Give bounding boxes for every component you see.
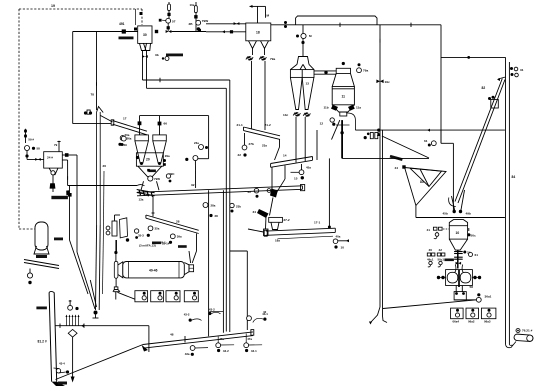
wire mixer drop — [72, 337, 74, 377]
wire funnel converge left — [90, 280, 96, 307]
mill flange lines — [128, 262, 130, 278]
wire funnel feed from conveyor28 — [196, 234, 198, 252]
wire silo18 legs — [252, 49, 254, 56]
instrument 79W top — [196, 20, 201, 25]
svg-text:50c: 50c — [471, 234, 476, 238]
instrument 28a mid — [199, 145, 204, 150]
stack tip — [97, 107, 104, 113]
wire mill feed horizontal — [455, 299, 477, 301]
wire vertical riser x72.7 — [72, 32, 74, 124]
conveyor 48 right cap — [251, 330, 254, 336]
svg-text:13a: 13a — [139, 198, 144, 202]
svg-text:43-1: 43-1 — [251, 349, 257, 353]
svg-text:23a: 23a — [262, 144, 267, 148]
exchanger rect B — [120, 218, 128, 238]
svg-text:22: 22 — [248, 190, 252, 194]
instrument 61 pair — [431, 141, 436, 146]
svg-text:17-1: 17-1 — [314, 221, 320, 225]
instrument below box24 hopper — [51, 171, 55, 175]
svg-text:12: 12 — [320, 122, 324, 126]
svg-text:50c1: 50c1 — [438, 258, 445, 262]
filter 11 inlet box — [336, 68, 350, 73]
bold chute piece — [390, 156, 402, 159]
wire header y217.5 — [416, 217, 505, 219]
wire into silo18 — [206, 31, 246, 33]
svg-text:2B: 2B — [189, 22, 194, 26]
wire corner box24 to header — [67, 160, 69, 186]
instrument cluster on duct — [301, 33, 306, 38]
silo 30 body — [138, 26, 152, 44]
vessel 20 hopper — [138, 166, 162, 177]
manifold drop — [148, 326, 150, 352]
wire header y130.1 — [355, 129, 505, 131]
wire dashed boundary top — [19, 8, 142, 10]
valve drops to cyclone hats — [139, 116, 141, 135]
valve 44 — [402, 165, 405, 168]
wire into silo18 upper — [206, 23, 246, 25]
wire main header y24.8 — [271, 24, 441, 26]
instrument pump 45 — [193, 156, 198, 161]
tank body — [35, 222, 48, 250]
svg-text:06a2: 06a2 — [468, 319, 475, 323]
mill feed box below — [454, 292, 466, 300]
separator funnel inner — [410, 168, 442, 186]
wire drop x329.4 to conveyor — [328, 158, 330, 228]
wire header y185.5 — [68, 185, 137, 187]
cyclone 13 body — [290, 70, 314, 78]
svg-text:23a: 23a — [194, 141, 199, 145]
svg-text:10: 10 — [456, 231, 460, 235]
svg-text:76.21 #: 76.21 # — [522, 329, 533, 333]
svg-text:84: 84 — [512, 175, 516, 179]
valve 35-1 — [169, 241, 172, 244]
box 24 — [44, 152, 63, 168]
wire transfer line y88.3 — [147, 87, 227, 89]
roller right — [460, 272, 471, 283]
screw under vessel 20 — [137, 190, 155, 193]
vent stack x196 — [195, 2, 197, 32]
mill side connectors — [437, 276, 440, 279]
left edge instruments — [134, 229, 138, 233]
wire drop x69.5 — [69, 186, 71, 240]
conveyor 13a right end box — [301, 185, 305, 191]
wire drop x77 — [76, 155, 78, 252]
svg-text:11: 11 — [342, 95, 346, 99]
valve 45b 49b dots — [453, 210, 456, 213]
svg-text:34: 34 — [253, 210, 257, 214]
wire bypass loop y16 — [296, 16, 377, 25]
wire duct hook arrow — [371, 307, 380, 322]
instrument 45a below 14 — [299, 170, 304, 175]
cyclone A cone — [135, 141, 149, 163]
conveyor 13a belt — [137, 186, 302, 193]
conveyor 17-1 left end — [264, 230, 267, 236]
wire cyclone tip drops — [295, 117, 297, 163]
wire mill discharge — [455, 286, 457, 292]
wire capsule feed — [115, 240, 117, 261]
silo 18 hoppers — [249, 41, 257, 49]
svg-text:43a: 43a — [185, 352, 190, 356]
svg-text:23b: 23b — [236, 205, 241, 209]
svg-text:47a: 47a — [247, 337, 252, 341]
svg-text:15: 15 — [294, 177, 298, 181]
instrument 79W vessel20 — [148, 176, 153, 181]
elevator head box — [491, 100, 499, 109]
tank label — [36, 255, 47, 258]
svg-text:31: 31 — [520, 68, 524, 72]
wire under48 drops — [184, 336, 186, 343]
svg-text:11b: 11b — [324, 106, 329, 110]
valve sq lower — [230, 30, 233, 33]
left vent stack — [25, 129, 27, 143]
wire pump branch to circle — [198, 158, 209, 160]
wire vertical riser x96.5 — [96, 32, 98, 111]
tank discharge conveyor — [24, 260, 59, 266]
instrument 39a — [170, 234, 175, 239]
svg-text:11a: 11a — [356, 106, 361, 110]
vessel 20 left fitting — [136, 156, 139, 159]
svg-text:18a: 18a — [275, 239, 280, 243]
instrument 27b — [242, 145, 247, 150]
cyclone B cone — [153, 141, 167, 163]
svg-text:43-2: 43-2 — [209, 307, 215, 311]
svg-text:79a: 79a — [363, 69, 368, 73]
svg-text:21-2: 21-2 — [265, 123, 271, 127]
instrument cluster below header — [370, 133, 373, 139]
instrument 43a left — [190, 346, 195, 351]
instrument left of 24 — [25, 146, 30, 151]
svg-text:32: 32 — [191, 183, 195, 187]
svg-text:13: 13 — [306, 82, 310, 86]
svg-text:17: 17 — [123, 117, 127, 121]
wire exchanger top — [114, 215, 116, 221]
wire long vertical x208.6 lower — [208, 190, 210, 336]
svg-text:10a: 10a — [190, 3, 195, 7]
svg-text:43-4: 43-4 — [59, 362, 65, 366]
filter 11 cone — [332, 105, 354, 112]
mill feed funnel — [189, 251, 191, 263]
valve black discharge — [50, 183, 56, 188]
wire corner drop x441 to valves — [440, 130, 442, 143]
wall foot label — [58, 382, 67, 385]
svg-text:28: 28 — [215, 214, 219, 218]
wire conveyor14 leg drop — [271, 167, 273, 190]
wire right pair hook — [506, 342, 517, 348]
valve cyclone tips — [295, 112, 299, 116]
wire stack continue — [96, 225, 97, 310]
silo 18 body — [246, 23, 271, 41]
funnel apex dot — [94, 311, 98, 315]
wire duct x380 — [379, 25, 381, 307]
mill inlet box right — [189, 265, 194, 272]
valve below — [25, 154, 28, 157]
conveyor 17-1 belt — [266, 228, 336, 231]
wire silo18 drop right — [264, 61, 266, 130]
roller left — [447, 272, 458, 283]
pump box 06a4 — [451, 308, 464, 319]
wire filter discharge bold — [341, 120, 343, 158]
wire corner drop x441 — [440, 25, 442, 144]
svg-text:40-46: 40-46 — [149, 269, 158, 273]
wire stack chute to conveyor 17 — [101, 116, 113, 123]
label 4WA.33b — [166, 54, 183, 57]
instrument 22 above feeder — [254, 188, 259, 193]
wire header y115.6 — [140, 115, 209, 117]
svg-text:06a3: 06a3 — [484, 319, 491, 323]
wire valve to pump box — [118, 292, 135, 299]
svg-text:18: 18 — [256, 31, 260, 35]
silo 10 cone — [449, 239, 467, 250]
rotary feeder capsule — [514, 334, 533, 342]
pump box 2 — [151, 291, 164, 302]
svg-text:491: 491 — [119, 22, 125, 26]
stack column — [96, 112, 98, 225]
pump box 3 — [166, 291, 180, 302]
label bold 1 — [36, 307, 47, 310]
wire right drop x509.4 — [508, 62, 510, 345]
wire third line — [103, 171, 106, 225]
separator funnel outer — [405, 168, 446, 206]
conveyor 14 belt — [271, 157, 313, 164]
wire valve drop — [115, 292, 117, 300]
wire drop x453.4 to silo10 — [452, 143, 454, 211]
svg-text:22: 22 — [238, 153, 242, 157]
mill center feed bold — [458, 270, 460, 287]
wire pump down to conveyor — [194, 161, 196, 189]
wire x317 drop — [316, 130, 318, 160]
wire dashed to tank — [19, 228, 35, 230]
wire chute below conveyor14 left — [284, 166, 286, 180]
wall cap — [49, 291, 54, 292]
conveyor 48 belt — [143, 332, 253, 345]
svg-text:79: 79 — [54, 143, 58, 147]
wire branch y251 — [230, 250, 248, 252]
wire silo18 drop left — [251, 61, 253, 129]
spray comb — [66, 317, 68, 326]
svg-text:61: 61 — [424, 139, 428, 143]
valve 69 dot — [118, 143, 121, 146]
instrument 12 rotary — [330, 118, 334, 122]
mill inlet capsule — [114, 261, 118, 278]
wire long vertical x208.6 upper — [208, 116, 210, 159]
instrument 36a1 — [476, 297, 481, 302]
valve 491 — [122, 29, 126, 33]
svg-text:79W: 79W — [202, 19, 208, 23]
wire header y123.6 to conveyor17 — [73, 123, 112, 125]
label 30/1000 — [51, 196, 68, 199]
label bold midleft — [152, 242, 161, 245]
wire duct drop x303 — [302, 25, 304, 57]
wire box24 discharge — [52, 175, 54, 192]
bold label right of tank — [54, 238, 63, 241]
mill right trunnion — [184, 263, 189, 275]
conveyor 21-1 belt — [244, 127, 281, 136]
svg-text:20: 20 — [146, 158, 150, 162]
cyclone B hat — [153, 135, 167, 141]
wire silo18 top vent — [257, 6, 259, 23]
instrument 35a — [148, 226, 153, 231]
cyclone A hat — [135, 135, 149, 141]
svg-text:27b: 27b — [249, 142, 254, 146]
cone tip valves — [140, 162, 143, 165]
svg-text:19c: 19c — [385, 80, 390, 84]
wire into box24 — [26, 151, 28, 160]
svg-text:66: 66 — [164, 122, 168, 126]
wire capsule drop — [115, 278, 117, 287]
svg-text:39a: 39a — [177, 235, 182, 239]
wire cyclone to filter pipe — [314, 70, 336, 72]
conveyor 28 belt — [146, 215, 199, 230]
wire chute diagonal — [275, 147, 280, 160]
svg-text:M: M — [309, 34, 312, 38]
silo10 right fitting 50c — [467, 233, 470, 236]
conveyor 17 belt — [113, 121, 147, 132]
instrument 23b on drop — [230, 203, 234, 207]
filter 11 shoulder — [332, 74, 354, 87]
svg-text:19: 19 — [51, 4, 55, 8]
svg-text:49b: 49b — [466, 212, 471, 216]
pump box 1 — [135, 291, 148, 302]
wire duct x382.5 lower — [382, 130, 384, 316]
valve at silo30 outlet right — [155, 30, 158, 33]
feeder pulley black — [270, 189, 278, 198]
valve diamond on upper — [234, 22, 240, 25]
svg-text:81.2 #: 81.2 # — [38, 340, 47, 344]
wire right drop x505.5 — [505, 57, 507, 344]
label 4WA.50 — [119, 37, 134, 40]
roller mill housing — [446, 270, 473, 286]
pump box 4 — [184, 291, 198, 302]
wire dashed boundary left — [18, 9, 20, 229]
cyclone 13 cones — [290, 77, 302, 109]
filter 11 band — [332, 88, 354, 90]
wire long drop x229.8 — [229, 80, 231, 332]
frame 43 box — [209, 311, 223, 313]
svg-text:3b: 3b — [155, 53, 159, 57]
svg-text:43-2: 43-2 — [184, 312, 190, 316]
conveyor 48 left pulley — [142, 345, 148, 352]
valve stub dashed corner — [140, 12, 143, 15]
wall conveyor lines — [49, 293, 52, 382]
wire exchanger drop — [116, 240, 118, 251]
wire silo30 discharge down — [142, 59, 144, 80]
wire silo30 legs — [142, 51, 144, 60]
filter 11 left leg — [332, 120, 340, 140]
arrow down — [71, 377, 75, 383]
wire top right branch y57.4 — [441, 56, 506, 58]
nozzle 34 — [257, 209, 269, 218]
svg-text:28: 28 — [176, 220, 180, 224]
svg-text:20a: 20a — [125, 133, 130, 137]
silo 10 body — [449, 226, 467, 239]
wire chute to box23 — [265, 216, 268, 229]
svg-text:37-2: 37-2 — [283, 218, 289, 222]
wire big diagonal — [56, 345, 144, 380]
wire arrow right — [338, 240, 349, 242]
mill left trunnion — [118, 262, 123, 278]
valve on x69.5 — [66, 190, 69, 195]
svg-text:82: 82 — [482, 86, 486, 90]
wire long vertical x247.3 — [246, 251, 248, 330]
wire elevator top arrow — [498, 77, 506, 79]
instrument 57 — [166, 18, 171, 23]
svg-text:43-2: 43-2 — [223, 349, 229, 353]
airslide bars below silo10 — [454, 251, 463, 253]
wire chute from duct — [382, 136, 429, 158]
instrument 79a right — [357, 68, 362, 73]
box 23 small — [264, 229, 269, 236]
wire long vertical x223.4 — [222, 190, 224, 333]
svg-text:13c: 13c — [283, 113, 288, 117]
wire feed header y31 — [73, 31, 138, 33]
vessel 20 body — [136, 153, 163, 166]
svg-text:24 #: 24 # — [47, 156, 53, 160]
mill body — [123, 262, 185, 278]
filter 11 neck — [340, 112, 347, 116]
wire long drop x226.3 — [225, 88, 227, 331]
separator funnel inner2 — [420, 169, 429, 187]
elevator diagonal — [455, 79, 502, 202]
wire duct foot — [383, 316, 388, 323]
svg-text:59 #: 59 # — [28, 138, 34, 142]
svg-text:47a: 47a — [219, 337, 224, 341]
elevator boot — [449, 198, 456, 207]
exchanger dot — [126, 238, 129, 241]
wire elevator feed lines — [452, 196, 455, 211]
manifold line — [55, 325, 149, 327]
instrument 42 42a — [247, 316, 252, 321]
vessel 20 skirt — [141, 181, 144, 190]
wire slant to mill feed — [383, 300, 477, 309]
valve bowtie 30a — [166, 30, 172, 33]
svg-text:14: 14 — [283, 154, 287, 158]
wire drop to conveyor 28 — [152, 196, 154, 217]
pump box 06a2 — [466, 308, 479, 319]
exchanger circles — [106, 226, 110, 230]
feeder 37-2 box — [269, 217, 283, 222]
valve diamond below silo10 — [456, 262, 462, 265]
svg-text:40a: 40a — [336, 235, 341, 239]
svg-text:69: 69 — [124, 143, 128, 147]
wall foot — [52, 382, 65, 386]
svg-text:29a: 29a — [165, 154, 170, 158]
instrument 20a — [121, 136, 126, 141]
wire funnel stem — [415, 206, 417, 218]
wire silo10 discharge — [457, 250, 459, 268]
wire to separator line — [172, 31, 207, 33]
svg-text:48: 48 — [170, 333, 174, 337]
instrument below tank conveyor — [27, 273, 32, 278]
wire header y158.4 — [342, 157, 429, 159]
svg-text:36a1: 36a1 — [485, 295, 492, 299]
cyclone 13 inlet hat — [297, 57, 309, 65]
valve 35-3 — [147, 234, 150, 237]
silo 30 hopper — [140, 43, 147, 50]
svg-text:35-3: 35-3 — [138, 234, 144, 238]
instrument 26a — [120, 136, 125, 141]
wire slant 23 to left — [248, 229, 264, 232]
mixer diamond — [68, 329, 77, 337]
svg-text:57: 57 — [172, 20, 176, 24]
svg-text:40: 40 — [429, 248, 433, 252]
mill inlet curves — [455, 265, 456, 273]
svg-text:30: 30 — [143, 33, 147, 37]
svg-text:28a: 28a — [211, 204, 216, 208]
svg-text:10: 10 — [341, 246, 345, 250]
svg-text:42: 42 — [263, 310, 267, 314]
tank skirt — [34, 246, 49, 254]
wire shelf y125 — [336, 124, 350, 126]
